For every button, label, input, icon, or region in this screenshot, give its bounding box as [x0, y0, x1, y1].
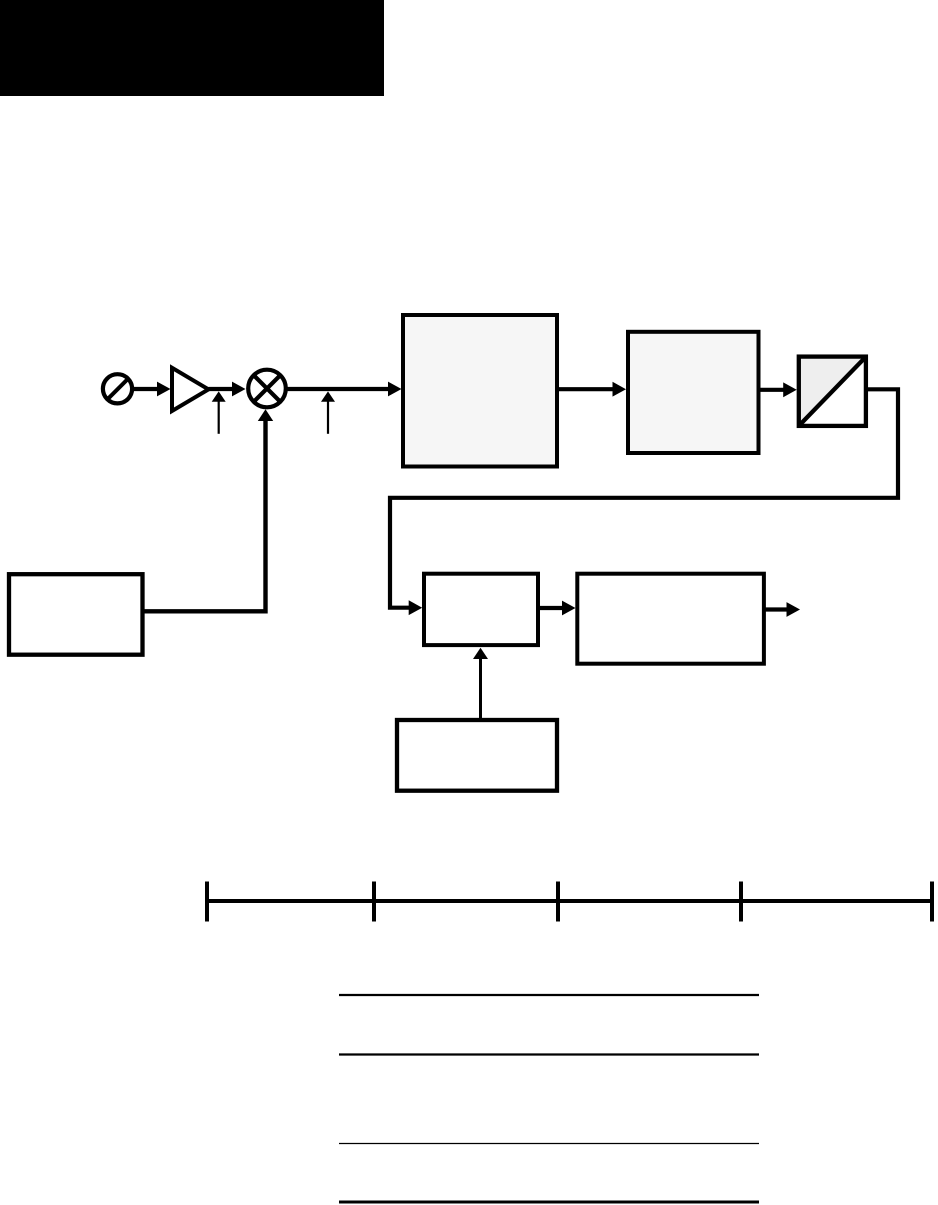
- rule line 3: [339, 1143, 759, 1145]
- output wire and arrowhead: [765, 607, 787, 611]
- arrowhead into mixer bottom: [258, 409, 273, 421]
- timeline axis: [207, 882, 932, 922]
- arrowhead into filter box: [388, 382, 402, 397]
- tick 3: [556, 882, 560, 922]
- output block (medium box): [577, 574, 764, 664]
- wire gain block to ADC: [760, 388, 784, 392]
- tick 1: [205, 882, 209, 922]
- wire source to amp: [133, 387, 158, 391]
- arrowhead into output block: [562, 601, 576, 616]
- thick LO wire from left box up into mixer: [143, 419, 266, 611]
- output arrowhead: [787, 602, 801, 617]
- thin control arrow 1: [212, 391, 226, 433]
- arrowhead into DSP box: [409, 600, 423, 615]
- rule line 1: [339, 994, 759, 996]
- LO source box (left): [9, 574, 143, 655]
- wire mixer to filter box: [286, 387, 389, 391]
- redacted header block: [0, 0, 384, 96]
- wire DSP to output block: [539, 606, 563, 610]
- mixer (circle with X): [248, 370, 286, 408]
- tick 5: [930, 882, 934, 922]
- arrowhead into amp: [157, 382, 171, 397]
- gain block (gray box): [628, 332, 759, 453]
- rule line 2: [339, 1053, 759, 1055]
- arrowhead into amp2 box: [613, 382, 627, 397]
- thin control arrow 2: [321, 391, 335, 433]
- tick 2: [372, 882, 376, 922]
- feedback wire from ADC down and left to DSP box: [390, 389, 898, 607]
- amplifier triangle: [172, 368, 209, 411]
- filter block (large gray box): [403, 315, 557, 467]
- wire filter to amp2 box: [557, 387, 613, 391]
- wire amp to mixer: [209, 387, 233, 391]
- oscillator source circle with slash: [103, 374, 132, 403]
- bottom reference box: [397, 720, 557, 791]
- arrowhead into ADC: [783, 382, 797, 397]
- rule line 4: [339, 1201, 759, 1204]
- DSP box (small): [424, 574, 538, 645]
- arrowhead into mixer: [232, 382, 246, 397]
- tick 4: [739, 882, 743, 922]
- ADC (square with diagonal): [799, 357, 866, 426]
- reference arrow from bottom box into DSP box: [473, 648, 488, 720]
